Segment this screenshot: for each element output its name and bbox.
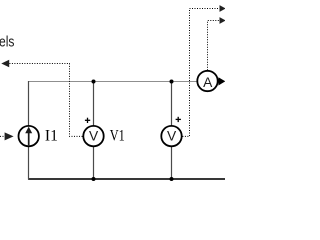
wire: left vertical segment (I1 branch) (28, 81, 30, 125)
svg-text:V: V (167, 128, 177, 143)
arrowhead into I1 (5, 132, 14, 140)
voltmeter V2 (161, 126, 181, 146)
junction at V2 / top net (170, 80, 174, 84)
voltmeter V1 (83, 126, 103, 146)
svg-text:V: V (89, 128, 99, 143)
wire: V1 branch vertical above (93, 81, 95, 125)
plus sign of V1 (85, 118, 90, 123)
arrowhead top-right 1 (clipped) (220, 5, 226, 12)
ammeter output arrow (218, 77, 225, 85)
wire: left vertical below I1 (28, 147, 30, 180)
wire: V2 branch vertical below (171, 147, 173, 180)
plus sign of V2 (176, 117, 181, 122)
wire: top horizontal net from I1 to ammeter (28, 81, 197, 83)
signal wire (dashed) from V2 measurement output to top-right arrow (182, 9, 219, 137)
svg-text:V1: V1 (110, 128, 125, 145)
arrowhead top-right 2 (clipped) (220, 17, 226, 24)
arrowhead left (signal exits to scope, clipped) (1, 60, 9, 67)
current source I1 (19, 126, 39, 146)
wire: V2 branch vertical above (171, 81, 173, 125)
signal wire (dashed) control input into I1 (0, 135, 6, 137)
ammeter A1 (197, 71, 217, 91)
signal wire (dashed) from ammeter output to top-right arrow (208, 21, 220, 71)
svg-text:A: A (203, 75, 213, 90)
svg-text:els: els (0, 35, 15, 51)
signal wire (dashed) from V1 measurement output to left arrow (8, 64, 83, 137)
wire: V1 branch vertical below (93, 147, 95, 180)
wire: bottom horizontal net (28, 178, 225, 180)
junction at V1 / bottom net (92, 177, 96, 181)
svg-text:I1: I1 (45, 128, 58, 145)
junction at V1 / top net (92, 80, 96, 84)
junction at V2 / bottom net (170, 177, 174, 181)
